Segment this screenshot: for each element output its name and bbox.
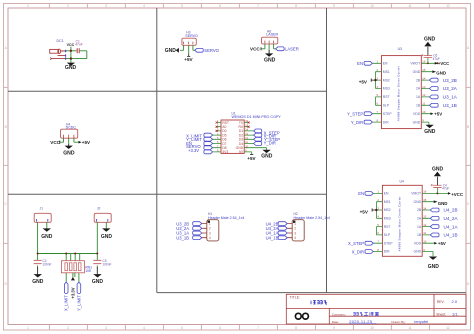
svg-text:DIR: DIR	[384, 250, 390, 254]
svg-text:1B: 1B	[416, 104, 421, 108]
svg-text:5: 5	[181, 4, 183, 8]
svg-text:GND: GND	[413, 70, 421, 74]
svg-text:GND: GND	[32, 279, 44, 285]
svg-text:SERVO: SERVO	[185, 34, 198, 38]
svg-text:X_LIMIT: X_LIMIT	[64, 295, 69, 311]
svg-text:1B: 1B	[417, 233, 422, 237]
svg-text:Y_LIMIT: Y_LIMIT	[76, 295, 81, 311]
svg-text:U4_1B: U4_1B	[266, 235, 279, 240]
svg-text:1: 1	[27, 4, 29, 8]
svg-text:GND: GND	[438, 201, 448, 206]
svg-text:+VCC: +VCC	[451, 192, 464, 197]
svg-text:REV:: REV:	[437, 300, 445, 304]
svg-text:EN: EN	[384, 192, 389, 196]
svg-text:8: 8	[295, 326, 297, 330]
svg-text:3: 3	[105, 4, 107, 8]
svg-text:10: 10	[370, 326, 374, 330]
svg-text:+5V: +5V	[434, 112, 442, 117]
svg-text:47uF: 47uF	[442, 187, 449, 191]
svg-text:GND: GND	[65, 65, 77, 71]
svg-text:STEP: STEP	[383, 112, 393, 116]
svg-text:4: 4	[294, 236, 296, 240]
svg-text:14: 14	[422, 76, 426, 80]
svg-text:100nF: 100nF	[42, 262, 51, 266]
svg-text:MS1: MS1	[384, 200, 391, 204]
svg-text:GND: GND	[261, 154, 273, 160]
svg-text:16: 16	[422, 60, 426, 64]
svg-text:GND: GND	[413, 120, 421, 124]
svg-text:DIR: DIR	[383, 120, 389, 124]
svg-text:11: 11	[423, 231, 426, 235]
svg-text:VDD: VDD	[413, 112, 421, 116]
svg-text:1: 1	[27, 326, 29, 330]
svg-text:MS2: MS2	[383, 78, 390, 82]
svg-text:GND: GND	[92, 279, 104, 285]
svg-text:10: 10	[423, 240, 427, 244]
svg-text:2.0: 2.0	[452, 299, 458, 304]
svg-text:13: 13	[423, 215, 427, 219]
svg-text:+5V: +5V	[438, 241, 446, 246]
svg-text:6: 6	[219, 326, 221, 330]
svg-text:1A: 1A	[416, 95, 421, 99]
svg-text:4: 4	[143, 4, 145, 8]
svg-text:1/1: 1/1	[452, 311, 458, 316]
svg-text:GND: GND	[424, 36, 436, 42]
svg-text:LASER: LASER	[266, 33, 278, 37]
svg-text:GND: GND	[165, 48, 177, 54]
svg-text:U3_1B: U3_1B	[176, 235, 189, 240]
svg-text:2: 2	[67, 4, 69, 8]
svg-text:3V3: 3V3	[222, 150, 228, 154]
svg-text:U3_2A: U3_2A	[443, 86, 458, 91]
svg-text:EN: EN	[358, 191, 364, 196]
svg-text:U4: U4	[400, 180, 404, 184]
svg-text:15: 15	[422, 68, 426, 72]
svg-text:2: 2	[209, 227, 211, 231]
svg-text:2: 2	[294, 227, 296, 231]
svg-text:X_STEP: X_STEP	[348, 241, 364, 246]
svg-text:X_DIR: X_DIR	[352, 249, 364, 254]
svg-text:GND: GND	[41, 234, 53, 240]
svg-text:+5V: +5V	[82, 140, 91, 145]
svg-text:SLP: SLP	[384, 233, 391, 237]
svg-text:2A: 2A	[416, 87, 421, 91]
svg-text:2A: 2A	[417, 217, 422, 221]
svg-text:GND: GND	[414, 200, 422, 204]
svg-text:U4_1A: U4_1A	[444, 224, 459, 229]
svg-text:12: 12	[446, 326, 450, 330]
svg-text:12: 12	[446, 4, 450, 8]
svg-text:16: 16	[423, 190, 427, 194]
svg-text:GND: GND	[428, 264, 440, 270]
svg-text:10: 10	[422, 110, 426, 114]
svg-text:LASER: LASER	[285, 46, 299, 51]
svg-text:B: B	[467, 125, 469, 129]
svg-text:12: 12	[422, 93, 426, 97]
svg-text:2B: 2B	[416, 78, 421, 82]
svg-text:Y_STEP: Y_STEP	[347, 111, 363, 116]
svg-text:RST: RST	[384, 225, 391, 229]
svg-text:+VCC: +VCC	[438, 61, 449, 66]
svg-text:100nF: 100nF	[102, 262, 111, 266]
svg-text:J2: J2	[97, 207, 101, 211]
svg-text:GND: GND	[436, 71, 446, 76]
svg-text:TITLE:: TITLE:	[290, 296, 301, 300]
svg-text:Company:: Company:	[332, 312, 346, 316]
svg-text:MS1: MS1	[383, 70, 390, 74]
svg-text:U4_2B: U4_2B	[444, 208, 458, 213]
svg-text:8: 8	[295, 4, 297, 8]
svg-text:A4988 Stepper Motor Driver Car: A4988 Stepper Motor Driver Carrier	[397, 66, 401, 121]
svg-text:U3_1A: U3_1A	[443, 95, 458, 100]
svg-text:Sheet:: Sheet:	[436, 312, 446, 316]
svg-text:U3_1B: U3_1B	[443, 103, 457, 108]
svg-text:Y_DIR: Y_DIR	[264, 140, 276, 145]
svg-text:1A: 1A	[417, 225, 422, 229]
svg-text:WEMOS D1 MINI PRO COPY: WEMOS D1 MINI PRO COPY	[232, 115, 282, 119]
svg-text:SLP: SLP	[383, 104, 390, 108]
svg-text:11: 11	[408, 326, 412, 330]
svg-text:VCC: VCC	[50, 140, 60, 145]
svg-text:GND: GND	[414, 250, 422, 254]
svg-text:VCC: VCC	[67, 43, 75, 47]
svg-text:5V: 5V	[239, 150, 244, 154]
svg-text:renyufei: renyufei	[414, 319, 428, 324]
svg-text:U3: U3	[398, 47, 402, 51]
svg-text:GND: GND	[101, 234, 113, 240]
svg-text:A4988 Stepper Motor Driver Car: A4988 Stepper Motor Driver Carrier	[398, 197, 402, 252]
svg-text:2020-11-25: 2020-11-25	[349, 319, 373, 324]
svg-text:7: 7	[257, 326, 259, 330]
svg-text:GND: GND	[424, 129, 436, 135]
svg-text:1: 1	[209, 222, 211, 226]
svg-text:14: 14	[423, 206, 427, 210]
svg-text:GND: GND	[63, 150, 75, 156]
svg-text:Date:: Date:	[332, 320, 340, 324]
svg-text:MS3: MS3	[384, 217, 391, 221]
svg-text:9: 9	[333, 4, 335, 8]
svg-text:+3.3V: +3.3V	[70, 287, 75, 298]
svg-text:10: 10	[370, 4, 374, 8]
svg-text:47uF: 47uF	[75, 43, 83, 47]
svg-text:U4_1B: U4_1B	[444, 233, 458, 238]
svg-text:+3.3V: +3.3V	[188, 148, 199, 153]
svg-text:+5V: +5V	[184, 57, 193, 62]
svg-text:STEP: STEP	[384, 241, 394, 245]
svg-text:4: 4	[209, 236, 211, 240]
svg-text:DC1: DC1	[57, 39, 64, 43]
svg-text:Drawn By:: Drawn By:	[391, 320, 405, 324]
svg-text:2: 2	[67, 326, 69, 330]
svg-text:VMOT: VMOT	[411, 192, 421, 196]
svg-text:7: 7	[257, 4, 259, 8]
svg-text:11: 11	[408, 4, 412, 8]
svg-text:13: 13	[422, 85, 426, 89]
svg-text:U3_2B: U3_2B	[443, 78, 457, 83]
svg-text:U4_2A: U4_2A	[444, 216, 459, 221]
svg-text:EN: EN	[383, 62, 388, 66]
svg-text:+5V: +5V	[360, 209, 369, 214]
svg-text:VDD: VDD	[414, 241, 422, 245]
svg-text:3: 3	[209, 231, 211, 235]
svg-text:VMOT: VMOT	[410, 62, 420, 66]
svg-text:MS2: MS2	[384, 208, 391, 212]
svg-text:5: 5	[181, 326, 183, 330]
svg-text:GND: GND	[432, 166, 444, 172]
svg-text:11: 11	[422, 102, 425, 106]
svg-text:MS3: MS3	[383, 87, 390, 91]
svg-text:4: 4	[143, 326, 145, 330]
svg-text:B: B	[5, 125, 7, 129]
svg-text:1: 1	[294, 222, 296, 226]
svg-text:10K: 10K	[85, 269, 92, 273]
svg-text:+5V: +5V	[359, 79, 368, 84]
svg-text:VCC: VCC	[250, 46, 260, 51]
svg-text:3: 3	[294, 231, 296, 235]
svg-text:EN: EN	[357, 61, 363, 66]
svg-text:6: 6	[219, 4, 221, 8]
svg-text:15: 15	[423, 198, 427, 202]
svg-text:9: 9	[333, 326, 335, 330]
svg-text:SERVO: SERVO	[204, 48, 219, 53]
svg-text:Y_DIR: Y_DIR	[351, 120, 363, 125]
svg-text:GND: GND	[264, 57, 276, 63]
svg-text:2B: 2B	[417, 208, 422, 212]
svg-text:J1: J1	[40, 207, 44, 211]
svg-text:12: 12	[423, 223, 427, 227]
svg-text:+5V: +5V	[247, 156, 256, 161]
svg-text:RST: RST	[383, 95, 390, 99]
svg-text:3: 3	[105, 326, 107, 330]
